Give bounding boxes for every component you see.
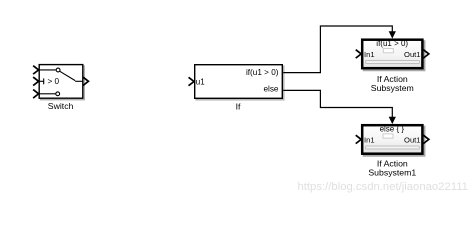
svg-text:In1: In1 <box>364 50 375 59</box>
svg-text:In1: In1 <box>364 136 375 145</box>
svg-text:Switch: Switch <box>48 101 74 111</box>
svg-text:u1: u1 <box>196 77 205 86</box>
svg-text:else: else <box>263 84 278 93</box>
svg-text:if(u1 > 0): if(u1 > 0) <box>246 68 279 77</box>
svg-text:Subsystem: Subsystem <box>371 83 414 93</box>
svg-text:else { }: else { } <box>380 124 405 133</box>
svg-text:> 0: > 0 <box>48 77 60 86</box>
svg-text:If: If <box>236 101 241 111</box>
svg-text:Subsystem1: Subsystem1 <box>368 168 416 178</box>
svg-text:if(u1 > 0): if(u1 > 0) <box>376 39 408 48</box>
svg-text:Out1: Out1 <box>404 136 420 145</box>
svg-text:https://blog.csdn.net/jiaonao2: https://blog.csdn.net/jiaonao22111 <box>298 181 468 193</box>
svg-text:Out1: Out1 <box>404 50 420 59</box>
